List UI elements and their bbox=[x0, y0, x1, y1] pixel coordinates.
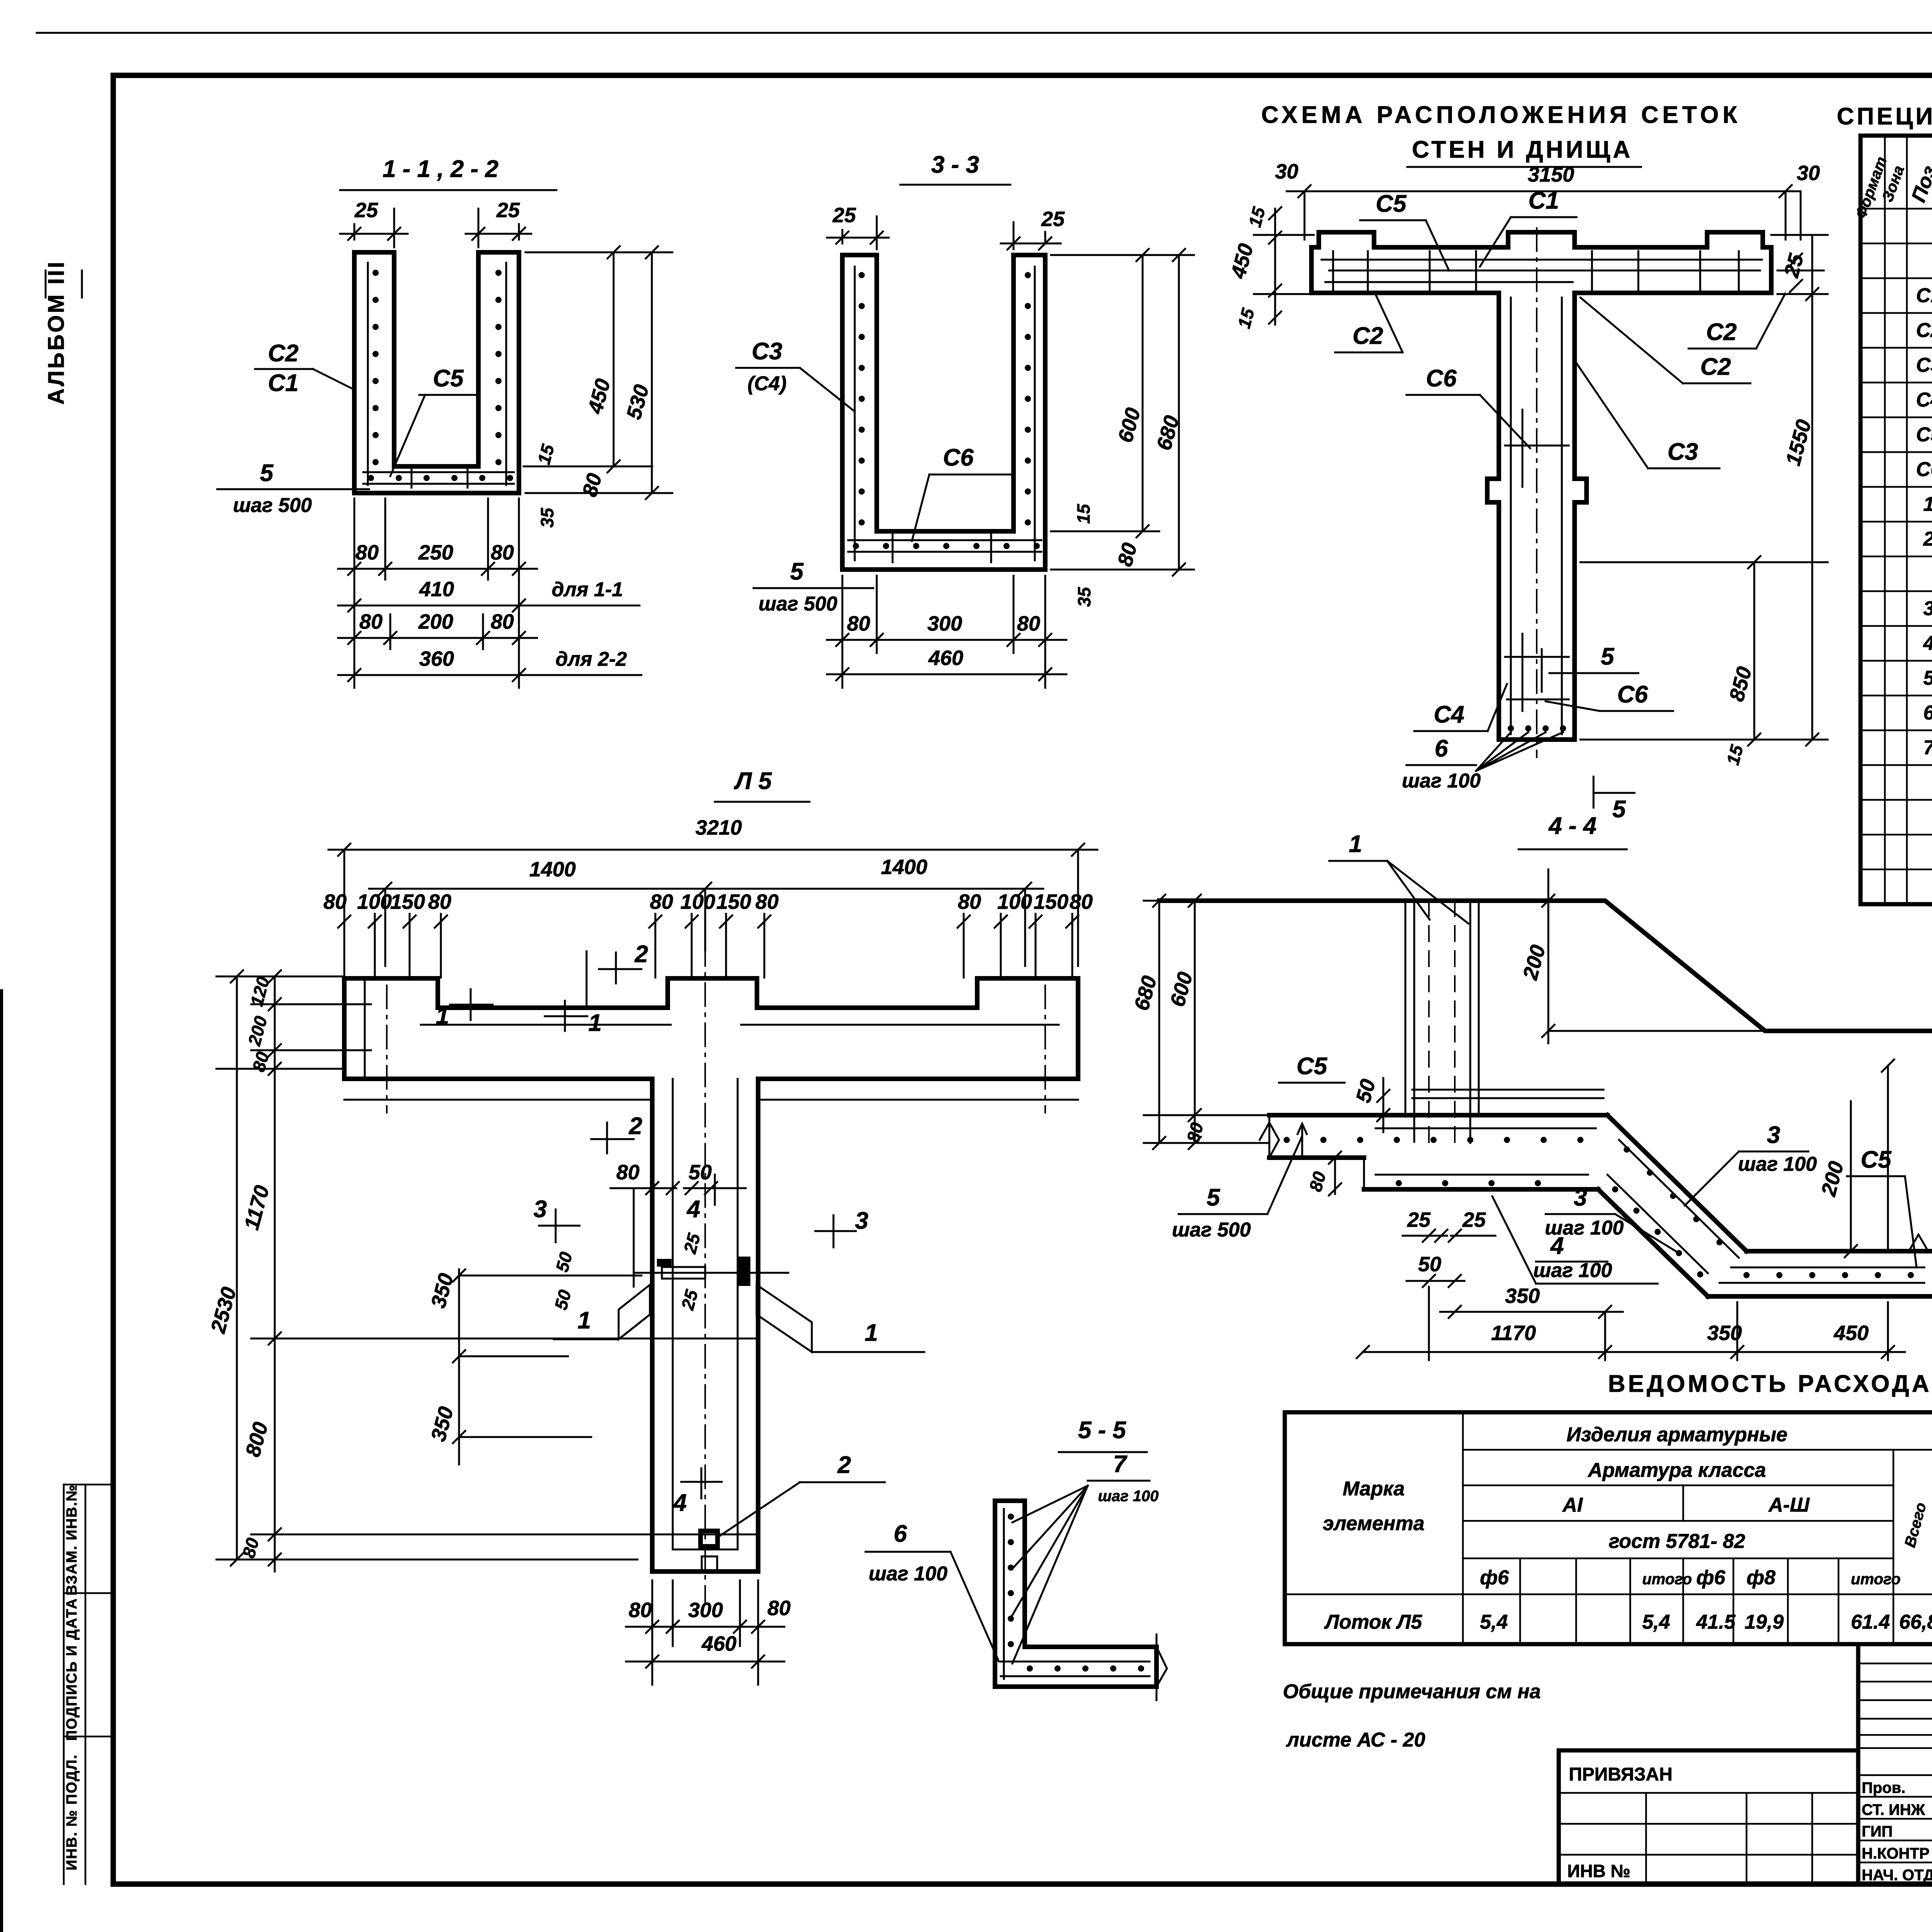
svg-text:С6: С6 bbox=[1426, 365, 1457, 392]
svg-text:итого: итого bbox=[1642, 1571, 1692, 1588]
svg-text:гост 5781- 82: гост 5781- 82 bbox=[1609, 1530, 1745, 1553]
svg-text:80: 80 bbox=[428, 890, 451, 913]
svg-text:С2: С2 bbox=[1706, 319, 1736, 345]
svg-text:НАЧ. ОТД: НАЧ. ОТД bbox=[1862, 1867, 1932, 1884]
svg-text:80: 80 bbox=[491, 610, 514, 633]
svg-text:Общие примечания см н: Общие примечания см на bbox=[1283, 1680, 1541, 1703]
svg-text:80: 80 bbox=[767, 1597, 791, 1620]
svg-text:элемента: элемента bbox=[1323, 1512, 1424, 1535]
svg-text:3: 3 bbox=[1923, 597, 1932, 620]
svg-text:шаг 500: шаг 500 bbox=[233, 494, 312, 517]
svg-text:1 - 1 , 2 - 2: 1 - 1 , 2 - 2 bbox=[383, 156, 498, 182]
svg-text:Арматура класса: Арматура класса bbox=[1587, 1459, 1766, 1481]
svg-text:15: 15 bbox=[1073, 503, 1094, 524]
svg-text:410: 410 bbox=[419, 578, 454, 601]
svg-text:250: 250 bbox=[418, 541, 453, 564]
svg-text:шаг 100: шаг 100 bbox=[1098, 1488, 1158, 1505]
svg-text:25: 25 bbox=[1407, 1208, 1431, 1231]
svg-text:ВЕДОМОСТЬ РАСХОДА СТАЛИ НА: ВЕДОМОСТЬ РАСХОДА СТАЛИ НА ЭЛЕМЕНТ, КГ. bbox=[1608, 1371, 1932, 1397]
svg-text:С6: С6 bbox=[943, 444, 974, 471]
svg-text:А-Ш: А-Ш bbox=[1768, 1494, 1810, 1516]
svg-text:шаг 100: шаг 100 bbox=[1533, 1259, 1612, 1282]
svg-text:5: 5 bbox=[790, 558, 804, 585]
svg-text:Л 5: Л 5 bbox=[734, 768, 772, 794]
svg-text:80: 80 bbox=[1070, 890, 1093, 913]
svg-text:5: 5 bbox=[1612, 796, 1626, 823]
svg-text:для 1-1: для 1-1 bbox=[552, 578, 623, 601]
svg-text:ИНВ. № ПОДЛ.: ИНВ. № ПОДЛ. bbox=[64, 1754, 80, 1871]
svg-text:С3: С3 bbox=[752, 338, 782, 365]
svg-text:5,4: 5,4 bbox=[1642, 1611, 1670, 1633]
svg-text:66,8: 66,8 bbox=[1899, 1611, 1932, 1633]
svg-text:450: 450 bbox=[1833, 1321, 1869, 1345]
svg-text:35: 35 bbox=[1074, 587, 1094, 607]
svg-text:80: 80 bbox=[958, 890, 981, 913]
svg-text:ГИП: ГИП bbox=[1862, 1823, 1893, 1840]
svg-text:5: 5 bbox=[260, 460, 274, 486]
svg-text:Пров.: Пров. bbox=[1862, 1779, 1905, 1796]
svg-text:СХЕМА РАСПОЛОЖЕНИЯ СЕТОК: СХЕМА РАСПОЛОЖЕНИЯ СЕТОК bbox=[1261, 102, 1741, 128]
svg-text:2: 2 bbox=[837, 1452, 851, 1478]
svg-text:5: 5 bbox=[1207, 1184, 1221, 1211]
svg-text:С1: С1 bbox=[1916, 284, 1932, 307]
svg-text:СПЕЦИФИКАЦИЯ К МОНОЛИТНОМУ: СПЕЦИФИКАЦИЯ К МОНОЛИТНОМУ ЛОТКУ Л5 bbox=[1837, 103, 1932, 130]
svg-text:100: 100 bbox=[680, 890, 715, 913]
svg-text:80: 80 bbox=[491, 541, 514, 564]
svg-text:6: 6 bbox=[1435, 735, 1448, 762]
svg-text:С5: С5 bbox=[1376, 190, 1407, 217]
svg-text:25: 25 bbox=[832, 204, 856, 227]
svg-text:С5: С5 bbox=[1861, 1146, 1892, 1173]
svg-text:ПОДПИСЬ И ДАТА: ПОДПИСЬ И ДАТА bbox=[64, 1598, 80, 1741]
svg-text:С4: С4 bbox=[1916, 389, 1932, 411]
svg-text:ВЗАМ. ИНВ.№: ВЗАМ. ИНВ.№ bbox=[64, 1484, 80, 1595]
svg-text:2: 2 bbox=[1923, 528, 1932, 550]
svg-text:шаг 100: шаг 100 bbox=[1402, 770, 1481, 792]
svg-text:С5: С5 bbox=[433, 365, 464, 392]
svg-text:3150: 3150 bbox=[1528, 163, 1574, 186]
svg-text:300: 300 bbox=[688, 1599, 723, 1622]
svg-text:Н.КОНТР: Н.КОНТР bbox=[1862, 1845, 1930, 1862]
svg-text:(С4): (С4) bbox=[747, 372, 786, 395]
svg-text:25: 25 bbox=[496, 199, 520, 222]
svg-text:С5: С5 bbox=[1296, 1053, 1328, 1080]
svg-text:С1: С1 bbox=[268, 370, 298, 396]
svg-text:7: 7 bbox=[1113, 1451, 1128, 1478]
svg-text:80: 80 bbox=[355, 541, 379, 564]
svg-text:360: 360 bbox=[419, 647, 454, 670]
svg-text:4: 4 bbox=[1550, 1233, 1564, 1259]
svg-text:1: 1 bbox=[1349, 831, 1362, 857]
svg-text:5,4: 5,4 bbox=[1480, 1611, 1508, 1633]
svg-text:35: 35 bbox=[537, 507, 557, 528]
svg-text:80: 80 bbox=[323, 890, 347, 913]
svg-text:1400: 1400 bbox=[881, 855, 927, 879]
svg-text:3: 3 bbox=[1574, 1184, 1587, 1211]
svg-text:С1: С1 bbox=[1528, 187, 1559, 214]
svg-text:50: 50 bbox=[689, 1161, 712, 1184]
svg-text:61.4: 61.4 bbox=[1851, 1611, 1890, 1633]
svg-text:25: 25 bbox=[1041, 207, 1065, 231]
svg-text:3 - 3: 3 - 3 bbox=[931, 151, 979, 178]
svg-text:80: 80 bbox=[847, 612, 870, 635]
svg-text:300: 300 bbox=[927, 612, 962, 635]
svg-text:19,9: 19,9 bbox=[1745, 1611, 1784, 1633]
svg-text:1: 1 bbox=[578, 1307, 591, 1334]
svg-text:Лоток Л5: Лоток Л5 bbox=[1324, 1611, 1422, 1633]
svg-text:6: 6 bbox=[1923, 702, 1932, 724]
svg-text:С2: С2 bbox=[1700, 354, 1731, 380]
svg-text:80: 80 bbox=[359, 610, 383, 633]
svg-text:ИНВ №: ИНВ № bbox=[1567, 1861, 1631, 1881]
svg-text:460: 460 bbox=[928, 646, 963, 670]
svg-text:1: 1 bbox=[436, 1003, 449, 1029]
svg-text:80: 80 bbox=[650, 890, 673, 913]
svg-text:4: 4 bbox=[686, 1196, 700, 1223]
svg-text:1: 1 bbox=[1923, 493, 1932, 515]
svg-text:80: 80 bbox=[755, 890, 779, 913]
svg-text:41.5: 41.5 bbox=[1696, 1611, 1736, 1633]
svg-text:4 - 4: 4 - 4 bbox=[1548, 813, 1597, 839]
svg-text:СТЕН И ДНИЩА: СТЕН И ДНИЩА bbox=[1412, 136, 1633, 163]
svg-text:Марка: Марка bbox=[1343, 1478, 1405, 1500]
svg-text:3210: 3210 bbox=[696, 816, 742, 839]
svg-text:шаг 500: шаг 500 bbox=[759, 593, 837, 615]
svg-text:С5: С5 bbox=[1916, 423, 1932, 446]
svg-text:2: 2 bbox=[629, 1113, 642, 1139]
svg-text:АЛЬБОМ III: АЛЬБОМ III bbox=[44, 260, 69, 405]
svg-text:200: 200 bbox=[418, 610, 453, 633]
svg-text:С3: С3 bbox=[1916, 354, 1932, 376]
svg-text:100: 100 bbox=[357, 890, 392, 913]
svg-text:5 - 5: 5 - 5 bbox=[1078, 1417, 1127, 1444]
svg-text:С4: С4 bbox=[1434, 701, 1464, 728]
svg-text:ф6: ф6 bbox=[1480, 1566, 1509, 1589]
svg-text:шаг 500: шаг 500 bbox=[1172, 1219, 1251, 1241]
svg-text:1: 1 bbox=[588, 1010, 602, 1036]
svg-text:460: 460 bbox=[701, 1632, 736, 1655]
svg-text:7: 7 bbox=[1923, 736, 1932, 759]
svg-text:листе АС - 20: листе АС - 20 bbox=[1286, 1729, 1425, 1751]
svg-text:100: 100 bbox=[997, 890, 1032, 913]
svg-text:шаг 100: шаг 100 bbox=[869, 1563, 947, 1585]
svg-text:25: 25 bbox=[354, 199, 378, 222]
svg-text:25: 25 bbox=[1462, 1208, 1486, 1231]
svg-text:ф6: ф6 bbox=[1696, 1566, 1726, 1589]
svg-text:2: 2 bbox=[634, 941, 648, 968]
svg-text:30: 30 bbox=[1275, 160, 1298, 183]
svg-text:СТ. ИНЖ: СТ. ИНЖ bbox=[1862, 1801, 1925, 1818]
svg-text:80: 80 bbox=[1017, 612, 1040, 635]
svg-text:30: 30 bbox=[1797, 162, 1820, 185]
svg-text:шаг 100: шаг 100 bbox=[1738, 1153, 1817, 1175]
svg-text:ПРИВЯЗАН: ПРИВЯЗАН bbox=[1569, 1764, 1672, 1785]
svg-text:150: 150 bbox=[716, 890, 751, 913]
svg-text:С6: С6 bbox=[1916, 458, 1932, 481]
svg-text:5: 5 bbox=[1923, 667, 1932, 689]
svg-text:для 2-2: для 2-2 bbox=[556, 648, 627, 670]
svg-text:1170: 1170 bbox=[1491, 1321, 1536, 1345]
svg-text:80: 80 bbox=[629, 1599, 652, 1622]
svg-text:С2: С2 bbox=[268, 340, 298, 367]
svg-text:С6: С6 bbox=[1617, 681, 1648, 708]
svg-text:150: 150 bbox=[1034, 890, 1068, 913]
svg-text:1: 1 bbox=[865, 1320, 878, 1346]
svg-text:С3: С3 bbox=[1667, 439, 1698, 465]
svg-text:6: 6 bbox=[894, 1520, 907, 1547]
svg-text:итого: итого bbox=[1851, 1571, 1901, 1588]
svg-text:АI: АI bbox=[1562, 1494, 1583, 1516]
svg-text:4: 4 bbox=[673, 1490, 687, 1516]
svg-text:150: 150 bbox=[390, 890, 425, 913]
svg-text:С2: С2 bbox=[1916, 319, 1932, 342]
svg-text:Изделия арматурные: Изделия арматурные bbox=[1566, 1423, 1787, 1446]
svg-text:3: 3 bbox=[1767, 1122, 1780, 1148]
svg-text:ф8: ф8 bbox=[1747, 1566, 1776, 1589]
svg-text:3: 3 bbox=[855, 1207, 868, 1234]
svg-text:1400: 1400 bbox=[529, 858, 576, 881]
svg-text:5: 5 bbox=[1601, 643, 1615, 670]
svg-text:4: 4 bbox=[1923, 632, 1932, 655]
svg-text:80: 80 bbox=[616, 1161, 639, 1184]
svg-text:50: 50 bbox=[1418, 1253, 1441, 1276]
svg-text:С2: С2 bbox=[1352, 323, 1383, 349]
svg-text:350: 350 bbox=[1505, 1284, 1540, 1308]
svg-text:3: 3 bbox=[534, 1196, 547, 1223]
